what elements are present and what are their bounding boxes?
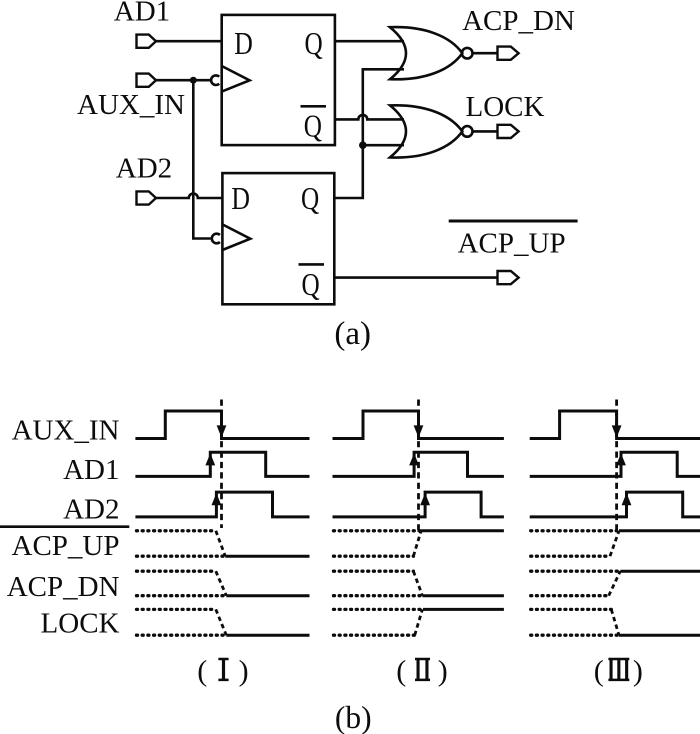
label ACP_UP overline (449, 220, 578, 223)
(III) AUX_IN falling edge arrow (612, 425, 622, 437)
(I) AD2 rising edge arrow (212, 493, 222, 505)
(I) ACP_DN solid low (226, 594, 309, 597)
(III) AD1 waveform (530, 452, 700, 476)
svg-text:(b): (b) (335, 700, 372, 734)
svg-text:ACP_DN: ACP_DN (7, 571, 120, 603)
svg-text:Q: Q (304, 107, 322, 143)
svg-text:(: ( (197, 655, 207, 688)
wire AD2 to U2 D input with hop over AUX_IN wire (156, 194, 222, 199)
(I) AD1 waveform (135, 452, 309, 476)
(I) ACP_UP dotted low (137, 555, 225, 558)
(II) ACP_DN solid low (422, 594, 504, 597)
U1 pin Q-bar overline (301, 105, 327, 108)
U4 output bubble (462, 126, 473, 137)
(II) AUX_IN falling edge arrow (414, 425, 424, 437)
svg-text:ACP_UP: ACP_UP (458, 228, 566, 260)
node junction on vertical (to U4) (359, 141, 367, 149)
(I) ACP_DN dotted high (137, 570, 216, 573)
(I) ACP_UP dotted high (137, 529, 216, 532)
(II) ACP_DN dotted low (334, 594, 422, 597)
wire U1 Q-bar to NOR U4 input 1 with hop over vertical (335, 115, 404, 119)
wire U2 Q-bar to ACP_UP port (334, 276, 497, 279)
(II) AD1 rising edge arrow (409, 453, 419, 465)
svg-text:(: ( (396, 655, 406, 688)
(I) LOCK solid low (226, 634, 309, 637)
(II) AUX_IN waveform (333, 411, 504, 439)
(II) AD2 waveform (333, 492, 504, 517)
svg-text:(a): (a) (334, 316, 371, 352)
svg-text:AUX_IN: AUX_IN (12, 414, 120, 446)
U2 clock triangle (222, 224, 250, 250)
(I) ACP_DN dotted low (137, 594, 226, 597)
svg-text:): ) (438, 655, 448, 688)
U1 clock triangle (222, 66, 250, 92)
(II) ACP_DN dotted high (334, 570, 414, 573)
(I) AUX_IN falling edge arrow (217, 425, 227, 437)
NOR gate U4 (390, 105, 462, 157)
(II) LOCK dotted high (334, 608, 423, 611)
(III) ACP_UP dotted high (531, 529, 617, 532)
wire AUX_IN to U1 clock bubble (156, 79, 210, 82)
(I) AD1 rising edge arrow (205, 453, 215, 465)
wire U3 to ACP_DN port (472, 52, 497, 55)
(I) ACP_UP solid low (225, 555, 309, 558)
input port AUX_IN (137, 74, 157, 87)
U1 clock bubble (211, 75, 219, 85)
node AUX_IN junction (190, 77, 197, 84)
(III) LOCK transition (611, 609, 619, 635)
wire AUX_IN vertical down to U2 clock (193, 80, 210, 238)
U2 clock bubble (212, 234, 220, 244)
(III) clock edge dashed vertical (615, 400, 618, 531)
svg-text:AD1: AD1 (114, 0, 170, 28)
(II) LOCK transition (415, 609, 423, 635)
(III) ACP_DN dotted low (531, 594, 609, 597)
(III) LOCK dotted high (531, 608, 612, 611)
(II) LOCK solid high (423, 608, 504, 611)
svg-text:(: ( (594, 655, 604, 688)
(III) ACP_UP solid high (619, 529, 700, 532)
svg-text:): ) (633, 655, 643, 688)
svg-text:AD1: AD1 (63, 454, 119, 486)
wire junction to NOR U4 input 2 (363, 144, 404, 147)
(III) AUX_IN waveform (530, 411, 700, 439)
wire U1 Q to NOR U3 input 1 (335, 40, 404, 43)
svg-text:LOCK: LOCK (41, 608, 120, 640)
U2 pin Q-bar overline (299, 263, 325, 266)
(II) clock edge dashed vertical (417, 400, 420, 531)
(I) LOCK dotted low (137, 634, 226, 637)
(III) AD1 rising edge arrow (616, 453, 626, 465)
output port LOCK (498, 125, 519, 138)
(III) LOCK solid low (619, 634, 700, 637)
(II) ACP_UP dotted low (334, 555, 414, 558)
(I) AUX_IN waveform (135, 411, 309, 439)
(III) ACP_UP dotted low (531, 555, 610, 558)
(I) clock edge dashed vertical (220, 400, 223, 529)
(II) ACP_DN transition (413, 571, 422, 596)
U3 output bubble (462, 48, 473, 59)
flip-flop U1 (222, 15, 335, 145)
(III) ACP_UP transition (610, 531, 619, 556)
(III) ACP_DN transition (609, 571, 621, 596)
(II) ACP_UP transition (413, 531, 421, 556)
NOR gate U3 (390, 27, 462, 79)
svg-text:AD2: AD2 (116, 153, 172, 185)
(II) ACP_UP dotted high (334, 529, 421, 532)
svg-text:Q: Q (301, 180, 319, 216)
input port AD1 (137, 35, 157, 48)
svg-text:Q: Q (305, 25, 323, 61)
svg-text:ACP_UP: ACP_UP (12, 530, 120, 562)
(I) ACP_UP transition (216, 531, 226, 556)
wire U2 Q up along vertical node (334, 69, 404, 198)
(I) AD2 waveform (135, 492, 309, 517)
svg-text:Q: Q (302, 266, 320, 302)
(II) ACP_UP solid high (421, 529, 504, 532)
svg-text:AUX_IN: AUX_IN (77, 89, 185, 121)
svg-text:D: D (231, 180, 250, 216)
(I) ACP_DN transition (216, 571, 227, 596)
(III) AD2 waveform (530, 492, 700, 517)
output port ACP_DN (498, 47, 519, 60)
(III) ACP_DN dotted high (531, 570, 618, 573)
(II) AD1 waveform (333, 452, 504, 476)
wire U4 to LOCK port (472, 130, 497, 133)
svg-text:AD2: AD2 (63, 494, 119, 526)
(III) LOCK dotted low (531, 634, 618, 637)
(III) AD2 rising edge arrow (622, 493, 632, 505)
svg-text:): ) (239, 655, 249, 688)
(I) LOCK dotted high (137, 608, 216, 611)
(II) AD2 rising edge arrow (420, 493, 430, 505)
wire AD1 to U1 D input (156, 40, 222, 43)
input port AD2 (137, 191, 157, 204)
(III) ACP_DN solid high (620, 570, 700, 573)
svg-text:LOCK: LOCK (466, 91, 545, 123)
timing label ACP_UP negation overline (0, 525, 129, 528)
svg-text:D: D (234, 25, 253, 61)
flip-flop U2 (222, 173, 334, 304)
output port ACP_UP (498, 271, 519, 284)
svg-text:ACP_DN: ACP_DN (462, 5, 575, 37)
(II) LOCK dotted low (334, 634, 415, 637)
(I) LOCK transition (216, 609, 227, 635)
